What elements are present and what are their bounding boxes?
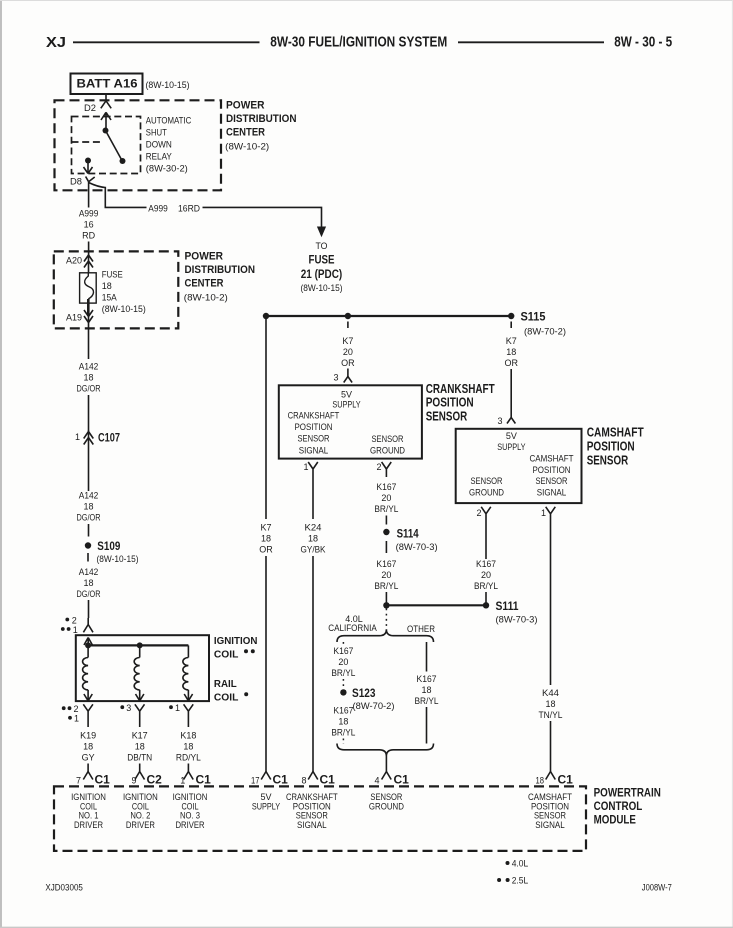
splice S109 [85,542,91,548]
svg-text:18: 18 [338,717,348,727]
svg-text:20: 20 [381,570,391,580]
svg-text:GY: GY [82,753,95,763]
node junction [383,602,389,608]
svg-text:RAIL: RAIL [214,679,237,690]
legend 4.0L / 2.5L [506,861,510,865]
svg-text:K167: K167 [476,559,496,569]
svg-text:A19: A19 [66,313,82,323]
svg-text:S111: S111 [496,599,519,613]
svg-text:16RD: 16RD [178,203,200,213]
automatic shut down relay [72,117,141,174]
svg-text:SIGNAL: SIGNAL [297,820,327,830]
wire A999 16RD to fuse 21 [89,183,322,228]
svg-text:(8W-70-3): (8W-70-3) [396,542,438,552]
svg-text:8W-30 FUEL/IGNITION SYSTEM: 8W-30 FUEL/IGNITION SYSTEM [270,34,447,50]
option markers pin 2 / pin 1 [65,618,69,622]
svg-text:GY/BK: GY/BK [301,545,326,555]
svg-text:18: 18 [506,347,516,357]
svg-text:SHUT: SHUT [146,128,167,138]
svg-text:SENSOR: SENSOR [536,476,568,486]
svg-text:18: 18 [102,281,112,291]
svg-text:SUPPLY: SUPPLY [497,442,525,452]
svg-text:K167: K167 [376,482,396,492]
svg-text:SENSOR: SENSOR [587,453,629,467]
svg-text:2: 2 [476,508,481,518]
svg-text:1: 1 [303,462,308,472]
svg-text:18: 18 [83,742,93,752]
wire K7 20 OR (crank sensor) [347,322,349,329]
svg-text:A142: A142 [79,362,99,372]
svg-text:(8W-30-2): (8W-30-2) [146,164,188,174]
svg-text:K19: K19 [80,731,96,741]
svg-text:A999: A999 [148,203,168,213]
coil 1 primary winding [87,645,89,657]
svg-text:COIL: COIL [214,650,239,661]
svg-text:K167: K167 [333,646,353,656]
svg-text:(8W-70-3): (8W-70-3) [496,615,538,625]
svg-text:K167: K167 [376,559,396,569]
svg-text:C1: C1 [196,773,212,787]
svg-text:XJD03005: XJD03005 [45,883,83,894]
svg-text:18: 18 [308,534,318,544]
svg-text:18: 18 [83,502,93,512]
svg-text:(8W-10-15): (8W-10-15) [301,283,343,293]
wire option split (dotted) [385,609,387,631]
node left [263,313,269,319]
svg-text:SENSOR: SENSOR [372,434,404,444]
svg-text:BR/YL: BR/YL [331,668,355,678]
svg-text:18: 18 [135,742,145,752]
svg-text:2: 2 [72,615,77,625]
svg-text:SUPPLY: SUPPLY [252,801,280,811]
svg-text:16: 16 [84,219,94,229]
camshaft position sensor box [456,429,582,503]
svg-text:3: 3 [333,373,338,383]
svg-text:COIL: COIL [214,693,239,704]
svg-text:17: 17 [251,775,260,785]
fuse 21 [80,273,97,303]
svg-text:K44: K44 [542,688,559,698]
svg-text:SUPPLY: SUPPLY [332,400,360,410]
svg-text:TO: TO [316,241,328,251]
svg-text:BR/YL: BR/YL [474,581,498,591]
svg-text:GROUND: GROUND [370,446,405,456]
svg-text:18: 18 [183,742,193,752]
svg-text:A20: A20 [66,256,82,266]
svg-text:20: 20 [481,570,491,580]
svg-text:AUTOMATIC: AUTOMATIC [146,116,192,126]
coil 3 primary winding [187,645,189,657]
coil 2 primary winding [139,645,141,657]
powertrain control module box [54,786,586,851]
svg-text:OR: OR [259,545,273,555]
svg-text:OR: OR [341,358,355,368]
svg-text:4: 4 [374,775,379,785]
svg-text:FUSE: FUSE [309,253,335,267]
svg-text:A999: A999 [79,208,99,218]
svg-text:S114: S114 [397,527,419,541]
svg-text:DISTRIBUTION: DISTRIBUTION [226,113,297,125]
svg-text:S109: S109 [97,539,120,553]
svg-text:CRANKSHAFT: CRANKSHAFT [288,411,340,421]
svg-text:DRIVER: DRIVER [176,820,205,830]
svg-text:21 (PDC): 21 (PDC) [301,267,343,281]
svg-text:POSITION: POSITION [295,422,333,432]
svg-text:C107: C107 [98,431,120,445]
svg-text:POSITION: POSITION [426,395,474,409]
svg-text:RD: RD [82,230,95,240]
svg-text:18: 18 [545,699,555,709]
svg-text:20: 20 [381,493,391,503]
svg-text:BR/YL: BR/YL [374,581,398,591]
svg-text:D8: D8 [70,177,82,187]
svg-text:(8W-10-15): (8W-10-15) [97,554,139,564]
coil pin 2 (with 2.5L pin 1 marker) [62,706,66,710]
svg-text:IGNITION: IGNITION [214,636,258,647]
svg-text:DG/OR: DG/OR [77,513,101,523]
options merge brace bottom [337,744,434,757]
svg-text:C1: C1 [394,773,410,787]
svg-text:1: 1 [74,714,79,724]
crankshaft position sensor box [279,385,422,458]
svg-text:POWER: POWER [185,251,224,263]
ignition coil box [76,635,209,701]
svg-text:(8W-70-2): (8W-70-2) [524,327,566,337]
coil pin 3 [120,705,124,709]
svg-text:CRANKSHAFT: CRANKSHAFT [426,382,495,396]
svg-text:RELAY: RELAY [146,152,172,162]
svg-text:1: 1 [541,508,546,518]
svg-text:(8W-10-15): (8W-10-15) [146,80,190,90]
svg-text:S123: S123 [352,686,376,700]
svg-text:18: 18 [83,578,93,588]
svg-text:1: 1 [175,703,180,713]
svg-text:3: 3 [497,416,502,426]
svg-text:SENSOR: SENSOR [426,409,468,423]
svg-text:DOWN: DOWN [146,140,172,150]
option branch 4.0L California (dotted) [342,642,344,647]
svg-text:DRIVER: DRIVER [74,820,103,830]
wire K7 18 OR (pin 17) [265,316,267,519]
svg-text:MODULE: MODULE [594,813,636,827]
wire to PCM pin 4 [385,756,387,772]
svg-text:5V: 5V [506,431,517,441]
svg-text:BR/YL: BR/YL [331,728,355,738]
coil pin 1 [169,705,173,709]
svg-text:RD/YL: RD/YL [176,753,201,763]
svg-text:20: 20 [338,657,348,667]
svg-text:K24: K24 [305,523,322,533]
svg-text:FUSE: FUSE [102,270,123,280]
coil input connector [83,618,93,632]
svg-text:CENTER: CENTER [226,127,265,139]
svg-text:18: 18 [83,373,93,383]
svg-text:C2: C2 [147,773,163,787]
node middle [345,313,351,319]
splice S111 [483,602,489,608]
svg-text:3: 3 [126,703,131,713]
svg-text:18: 18 [536,775,545,785]
svg-text:C1: C1 [273,773,289,787]
svg-text:GROUND: GROUND [369,801,404,811]
svg-text:2: 2 [74,704,79,714]
svg-text:OR: OR [504,358,518,368]
option branch OTHER [426,642,428,672]
splice S123 [340,689,346,695]
svg-text:DISTRIBUTION: DISTRIBUTION [185,264,256,276]
svg-text:CALIFORNIA: CALIFORNIA [328,623,377,633]
svg-text:POSITION: POSITION [533,465,571,475]
svg-text:(8W-70-2): (8W-70-2) [353,701,395,711]
svg-text:1: 1 [75,432,80,442]
svg-text:K7: K7 [342,336,353,346]
svg-text:C1: C1 [320,773,336,787]
svg-text:C1: C1 [558,773,574,787]
svg-text:J008W-7: J008W-7 [642,883,672,894]
5V supply bus [266,315,511,317]
svg-text:18: 18 [261,534,271,544]
svg-text:2: 2 [376,462,381,472]
svg-text:(8W-10-15): (8W-10-15) [102,304,146,314]
svg-text:18: 18 [421,685,431,695]
svg-text:S115: S115 [521,310,546,324]
svg-text:DG/OR: DG/OR [77,589,101,599]
svg-text:K7: K7 [506,336,517,346]
svg-text:CAMSHAFT: CAMSHAFT [587,425,644,439]
svg-text:CONTROL: CONTROL [594,799,643,813]
svg-text:A142: A142 [79,567,99,577]
svg-text:SIGNAL: SIGNAL [535,820,565,830]
svg-text:GROUND: GROUND [469,487,504,497]
svg-text:8W - 30 - 5: 8W - 30 - 5 [614,34,672,50]
svg-text:(8W-10-2): (8W-10-2) [184,292,228,302]
battery feed BATT A16 [71,74,143,95]
svg-text:SIGNAL: SIGNAL [299,445,329,455]
svg-text:BATT A16: BATT A16 [77,77,138,91]
svg-text:XJ: XJ [46,35,66,51]
svg-text:8: 8 [301,775,306,785]
svg-text:1: 1 [73,625,78,635]
wire junction to S111 [386,604,486,606]
svg-text:TN/YL: TN/YL [539,710,563,720]
wire K7 18 OR (cam sensor) [510,322,512,329]
svg-text:SIGNAL: SIGNAL [537,487,567,497]
svg-text:7: 7 [76,775,81,785]
svg-text:20: 20 [343,347,353,357]
svg-text:BR/YL: BR/YL [374,504,398,514]
svg-text:2.5L: 2.5L [512,876,529,886]
svg-text:BR/YL: BR/YL [415,696,439,706]
power distribution center box (fuse 21) [54,251,179,328]
svg-text:5V: 5V [341,389,352,399]
svg-text:DG/OR: DG/OR [77,384,101,394]
svg-text:POWER: POWER [226,99,265,111]
svg-text:15A: 15A [102,292,117,302]
coil bus [88,644,188,646]
svg-text:C1: C1 [95,773,111,787]
svg-text:POWERTRAIN: POWERTRAIN [594,786,661,800]
svg-text:CAMSHAFT: CAMSHAFT [530,454,574,464]
splice S115 [508,313,514,319]
svg-text:SENSOR: SENSOR [298,434,330,444]
svg-text:SENSOR: SENSOR [471,476,503,486]
svg-text:DB/TN: DB/TN [127,753,152,763]
svg-text:K7: K7 [260,523,271,533]
svg-text:POSITION: POSITION [587,439,635,453]
splice S114 [383,529,389,535]
options split brace top [337,630,434,643]
svg-text:4.0L: 4.0L [512,859,529,869]
svg-text:CENTER: CENTER [185,278,224,290]
svg-text:A142: A142 [79,491,99,501]
svg-text:DRIVER: DRIVER [126,820,155,830]
svg-text:OTHER: OTHER [407,624,435,634]
svg-text:D2: D2 [84,103,96,113]
power distribution center box (relay) [55,100,222,190]
wire BATT to D2 [105,94,107,101]
svg-text:K17: K17 [132,731,148,741]
svg-text:K167: K167 [333,706,353,716]
svg-text:K18: K18 [180,731,196,741]
svg-text:K167: K167 [417,674,437,684]
svg-text:(8W-10-2): (8W-10-2) [225,141,269,151]
